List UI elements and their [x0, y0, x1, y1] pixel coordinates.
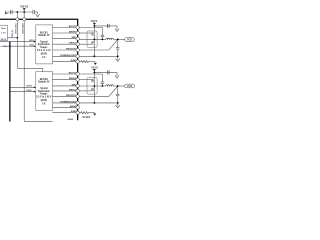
svg-text:BUCK2: BUCK2	[40, 79, 49, 81]
svg-text:FBVOUT2: FBVOUT2	[66, 95, 77, 97]
svg-text:2.5 V to 1.4 V: 2.5 V to 1.4 V	[37, 49, 51, 52]
svg-text:Application: Application	[38, 43, 51, 46]
svg-text:(DVS): (DVS)	[41, 54, 47, 56]
svg-text:ILIM2: ILIM2	[71, 111, 77, 113]
svg-text:BUCK1: BUCK1	[40, 32, 49, 34]
svg-text:VSYS: VSYS	[91, 20, 98, 23]
svg-text:VSYS_BK1: VSYS_BK1	[16, 22, 18, 33]
svg-text:AGND: AGND	[68, 118, 74, 121]
svg-text:DRVH1: DRVH1	[69, 32, 77, 34]
svg-text:POWERGOOD2: POWERGOOD2	[60, 101, 77, 103]
svg-text:AGND: AGND	[70, 105, 77, 108]
svg-text:POWERGOOD1: POWERGOOD1	[60, 55, 77, 57]
svg-text:VSYS: VSYS	[91, 67, 98, 70]
svg-text:Typical: Typical	[40, 88, 48, 90]
svg-text:GPIO2: GPIO2	[29, 40, 35, 42]
svg-text:VSYS_IN: VSYS_IN	[12, 29, 14, 37]
svg-text:BOOT1: BOOT1	[69, 26, 77, 28]
svg-text:DIs: DIs	[4, 46, 7, 48]
svg-text:49.9kΩ: 49.9kΩ	[82, 116, 90, 119]
svg-text:3 A: 3 A	[42, 56, 46, 59]
svg-text:2.5 V to 1.45 V: 2.5 V to 1.45 V	[36, 96, 52, 99]
svg-text:Default 3V: Default 3V	[38, 81, 50, 84]
svg-text:DRVL2: DRVL2	[69, 89, 77, 91]
svg-text:DRVL1: DRVL1	[69, 43, 77, 45]
svg-text:DRVH2: DRVH2	[69, 78, 77, 80]
svg-text:Usage:: Usage:	[40, 94, 48, 96]
svg-text:VO1: VO1	[127, 37, 133, 41]
svg-text:Usage:: Usage:	[40, 47, 48, 49]
svg-text:2 A: 2 A	[42, 103, 46, 106]
svg-text:Typical: Typical	[40, 41, 48, 43]
svg-text:(DVS): (DVS)	[41, 100, 47, 102]
svg-text:DVS2: DVS2	[27, 90, 32, 92]
svg-text:SW1: SW1	[72, 37, 78, 39]
svg-text:VSYS: VSYS	[20, 4, 28, 8]
svg-text:ILIM1: ILIM1	[71, 60, 77, 62]
svg-text:VSYS_BK2: VSYS_BK2	[23, 22, 25, 33]
svg-text:1.8 V: 1.8 V	[1, 32, 6, 34]
svg-text:I2C IF: I2C IF	[1, 39, 7, 41]
svg-text:SW2: SW2	[72, 85, 78, 87]
svg-text:Default 1V: Default 1V	[38, 34, 50, 37]
svg-text:Application: Application	[38, 90, 51, 93]
svg-text:GPIO3: GPIO3	[26, 86, 32, 88]
svg-text:VO2: VO2	[127, 84, 133, 88]
svg-text:BOOT2: BOOT2	[69, 73, 77, 75]
svg-text:FBVOUT1: FBVOUT1	[66, 49, 77, 51]
svg-text:Host: Host	[1, 27, 6, 30]
